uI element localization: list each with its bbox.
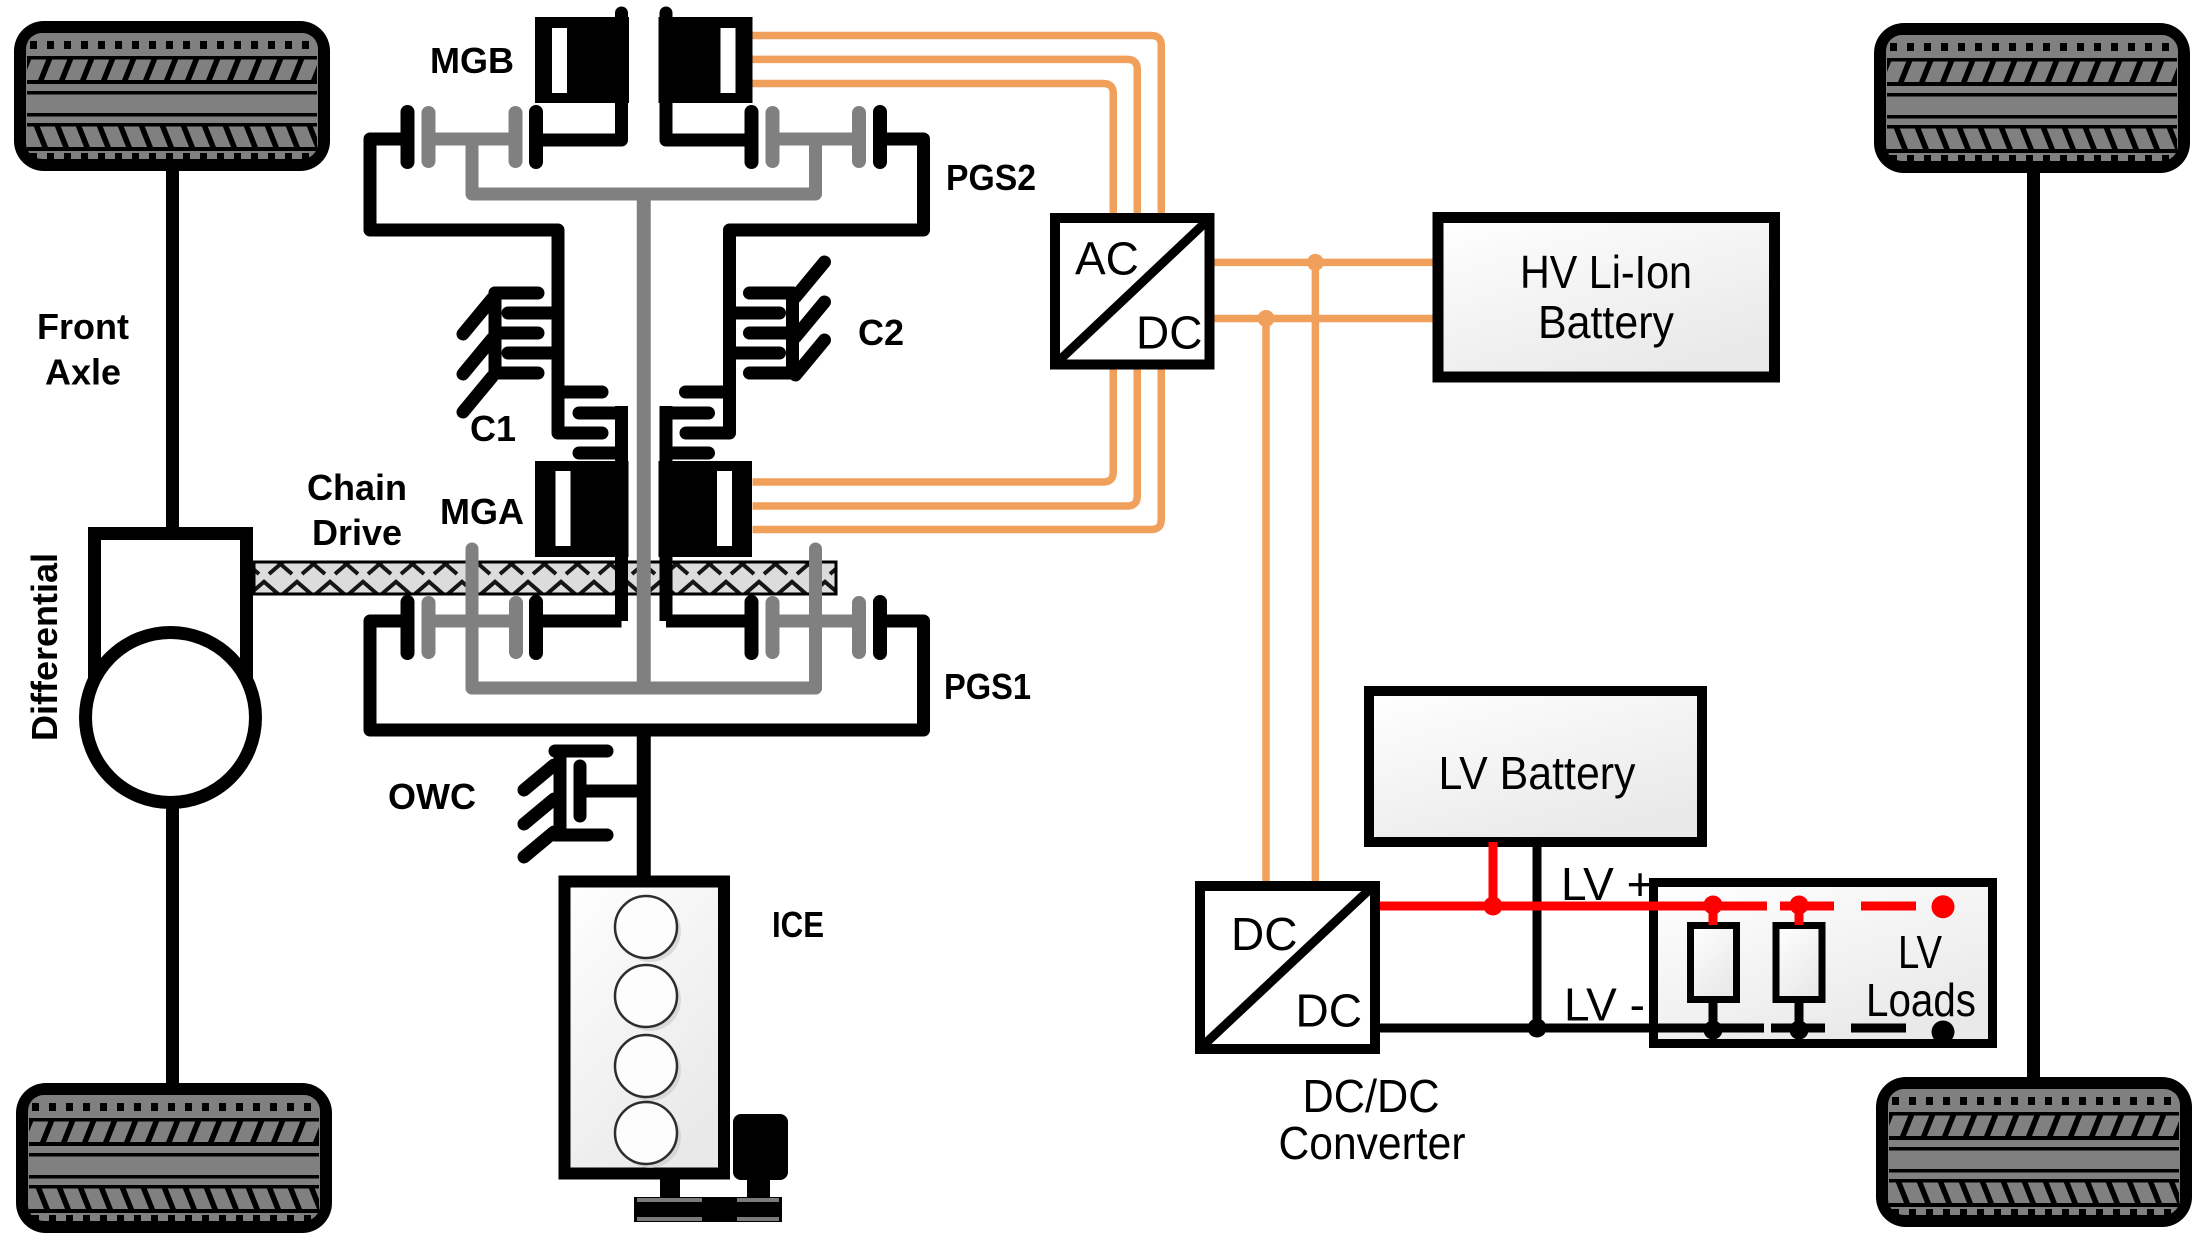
engine ICE block: [565, 882, 725, 1174]
svg-text:MGB: MGB: [430, 40, 514, 81]
svg-text:C2: C2: [858, 312, 904, 353]
resistor feed stubs red: [1709, 906, 1718, 925]
wheel front-left tire: [14, 21, 330, 171]
ICE cylinders: [615, 896, 681, 1168]
wire HV DC bus plus: [1215, 259, 1433, 267]
node HV bus junction 2: [1258, 310, 1275, 327]
DC/DC converter box: [1200, 886, 1375, 1049]
wire MGB phase W: [753, 84, 1114, 214]
PGS2 ring frame right + C2 shaft: [686, 139, 924, 433]
wire HV DC to DCDC converter 1: [1312, 262, 1320, 881]
svg-text:PGS2: PGS2: [946, 157, 1036, 198]
PGS1 carrier lower cross bar: [472, 682, 816, 695]
wire MGA phase U: [753, 370, 1114, 483]
PGS2 carrier gray left: [429, 139, 516, 194]
node HV bus junction 1: [1307, 254, 1324, 271]
svg-text:Axle: Axle: [45, 352, 121, 393]
svg-text:LV -: LV -: [1564, 979, 1645, 1031]
PGS2 carrier cross bar: [472, 188, 816, 201]
load resistor 2: [1776, 926, 1822, 1000]
central gray shaft: [637, 194, 651, 688]
svg-text:Chain: Chain: [307, 467, 407, 508]
svg-text:LV Battery: LV Battery: [1439, 747, 1636, 799]
PGS1 carrier gray right: [773, 615, 860, 628]
PGS2 sun link left: [536, 134, 622, 147]
svg-text:C1: C1: [470, 408, 516, 449]
LV minus terminal dot: [1932, 1021, 1955, 1044]
differential housing: [95, 534, 247, 702]
wire MGA phase W: [753, 370, 1162, 530]
LV battery negative lead: [1533, 842, 1542, 1028]
clutch C2 brake comb: [730, 262, 825, 375]
PGS2 ring frame left + C1 shaft: [370, 139, 602, 433]
front axle shaft (left): [166, 168, 179, 1085]
resistor ground stubs: [1709, 1003, 1718, 1028]
LV plus junction dots: [1484, 897, 1503, 916]
PGS1 sun link left: [536, 615, 622, 628]
engine base bar highlights: [637, 1200, 779, 1219]
svg-text:MGA: MGA: [440, 491, 524, 532]
differential gear circle: [86, 633, 256, 803]
wheel front-right tire: [1874, 23, 2190, 173]
svg-text:LV +: LV +: [1561, 858, 1654, 910]
svg-text:Front: Front: [37, 306, 129, 347]
wire HV DC bus minus: [1215, 315, 1433, 323]
svg-text:DC: DC: [1136, 307, 1202, 359]
HV Li-Ion battery box: [1438, 218, 1775, 378]
inverter AC/DC box: [1055, 218, 1210, 365]
LV plus wire: [1380, 902, 1834, 911]
chain sprocket gray shaft right: [809, 549, 822, 688]
clutch C1 lower plates: [558, 392, 622, 453]
svg-text:AC: AC: [1075, 233, 1139, 285]
rear axle shaft (right): [2027, 170, 2040, 1079]
wheel rear-left tire: [16, 1083, 332, 1233]
MGB right shaft: [660, 13, 673, 140]
PGS1 carrier gray left: [429, 615, 517, 628]
LV battery positive lead: [1489, 842, 1498, 906]
svg-text:Converter: Converter: [1279, 1117, 1466, 1169]
one-way clutch OWC: [524, 751, 643, 857]
clutch C2 lower plates: [666, 392, 730, 453]
chain sprocket gray shaft left: [466, 549, 479, 688]
PGS1 node bars black: [408, 602, 881, 653]
MGA right shaft: [660, 406, 673, 621]
engine mount stubs: [660, 1178, 680, 1198]
svg-text:Battery: Battery: [1538, 296, 1674, 348]
wire MGB phase U: [753, 36, 1162, 214]
motor-generator MGA right block: [659, 461, 753, 557]
svg-text:Loads: Loads: [1866, 974, 1976, 1026]
PGS2 node bars black: [408, 112, 881, 162]
wire MGA phase V: [753, 370, 1138, 507]
motor-generator MGB left block: [535, 17, 629, 103]
svg-text:ICE: ICE: [772, 904, 824, 945]
PGS1 ring frame: [370, 621, 924, 730]
wheel rear-right tire: [1876, 1077, 2192, 1227]
PGS2 sun link right: [666, 134, 752, 147]
svg-text:Differential: Differential: [24, 553, 65, 741]
LV loads box: [1654, 883, 1993, 1044]
LV minus wire: [1380, 1024, 1825, 1033]
svg-text:OWC: OWC: [388, 776, 476, 817]
svg-text:LV: LV: [1898, 926, 1942, 978]
clutch C1 brake comb: [463, 293, 558, 412]
chain drive band: [254, 562, 836, 594]
svg-text:HV Li-Ion: HV Li-Ion: [1520, 246, 1692, 298]
PGS2 carrier gray right: [773, 139, 860, 194]
PGS2 node bars gray: [429, 113, 860, 161]
MGB left shaft: [615, 13, 628, 140]
PGS1 sun link right: [666, 615, 752, 628]
starter box: [733, 1114, 788, 1180]
wire MGB phase V: [753, 59, 1138, 213]
motor-generator MGA left block: [535, 461, 629, 557]
LV plus terminal dot: [1932, 895, 1955, 918]
engine output shaft: [637, 730, 651, 878]
svg-text:DC/DC: DC/DC: [1303, 1070, 1440, 1122]
svg-text:DC: DC: [1231, 908, 1297, 960]
engine base bar: [634, 1197, 782, 1222]
LV battery box: [1369, 691, 1702, 842]
svg-text:Drive: Drive: [312, 512, 402, 553]
MGA left shaft: [615, 406, 628, 621]
svg-text:DC: DC: [1296, 985, 1362, 1037]
PGS1 node bars gray: [429, 603, 860, 652]
motor-generator MGB right block: [659, 17, 753, 103]
load resistor 1: [1691, 926, 1737, 1000]
wire HV DC to DCDC converter 2: [1262, 319, 1270, 882]
svg-text:PGS1: PGS1: [944, 666, 1031, 707]
LV minus junction dot: [1528, 1019, 1547, 1038]
